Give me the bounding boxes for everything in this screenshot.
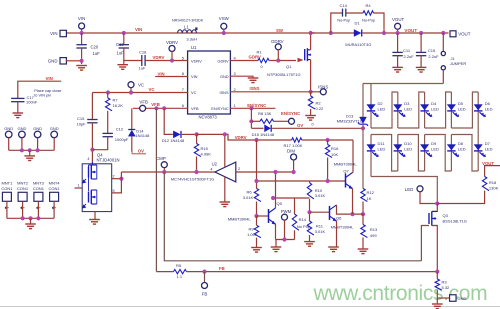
svg-text:D11: D11 <box>378 141 386 146</box>
junction C15b top <box>419 31 423 35</box>
pad GND 1 <box>5 131 12 138</box>
wire GND pads bus <box>9 149 55 151</box>
svg-text:C14: C14 <box>340 3 348 8</box>
wire C17 bottom <box>17 102 19 113</box>
svg-text:D12 1N4148: D12 1N4148 <box>162 138 185 143</box>
svg-text:1uF: 1uF <box>117 51 125 56</box>
wire OV right <box>272 127 363 129</box>
svg-text:R11: R11 <box>316 223 324 228</box>
wire R17 line to Q7 <box>352 140 354 173</box>
wire C20 leads <box>81 33 83 45</box>
ground below C20 <box>76 66 87 71</box>
svg-text:CON1: CON1 <box>17 186 29 191</box>
wire U2 vcc <box>224 134 226 167</box>
svg-text:1N4148: 1N4148 <box>135 133 150 138</box>
wire VDRV jog <box>197 134 292 140</box>
wire R10 bottom <box>309 199 311 221</box>
ground below Q5 rail <box>271 247 282 252</box>
capacitor C14 <box>343 9 346 17</box>
wire gate arrow <box>298 58 304 62</box>
junction VSW <box>222 31 226 35</box>
Q4 internal gate tie <box>89 162 93 191</box>
diode D15 <box>265 125 272 132</box>
svg-text:GDRV: GDRV <box>271 39 284 44</box>
ground below C11 <box>392 67 403 72</box>
svg-text:NTJD4001N: NTJD4001N <box>97 158 120 163</box>
svg-text:R8 13K: R8 13K <box>258 111 272 116</box>
svg-text:VDRV: VDRV <box>166 40 178 45</box>
wire DIM drop <box>293 160 295 172</box>
svg-text:Q7: Q7 <box>343 169 349 174</box>
junction R15 bottom <box>194 170 198 174</box>
LED D11 <box>367 145 379 157</box>
section OV wire <box>251 123 365 137</box>
wire ISNS pin2 <box>230 91 310 93</box>
wire v R6 <box>256 140 258 189</box>
section U1 <box>182 45 237 119</box>
svg-text:ISNS: ISNS <box>250 86 260 91</box>
net flag OV2 bracket <box>132 151 146 154</box>
svg-text:GND: GND <box>4 126 13 131</box>
wire OV left <box>251 127 263 129</box>
inductor L1 <box>178 30 197 33</box>
svg-text:4: 4 <box>87 157 89 161</box>
wire chain seg D9-D8 <box>398 135 425 172</box>
capacitor C20 <box>76 45 86 48</box>
junction DIM <box>292 170 296 174</box>
ground below C19 <box>117 65 128 70</box>
LED D7 <box>474 145 486 157</box>
Q4 fet B arrow <box>83 204 86 208</box>
svg-text:R18: R18 <box>489 180 497 185</box>
section pin3 gnd <box>230 76 258 82</box>
wire VOUT tp drop <box>397 29 399 33</box>
wire GDRV tp drop <box>277 50 279 61</box>
resistor R3 <box>435 279 442 290</box>
svg-text:D8: D8 <box>458 141 464 146</box>
section ISNS <box>230 84 328 126</box>
transistor Q4 box <box>82 164 112 212</box>
wire R14 bottom <box>294 230 296 239</box>
wire C11 bottom <box>397 56 399 67</box>
svg-text:LED: LED <box>378 147 386 152</box>
svg-text:DIM: DIM <box>287 149 295 154</box>
wire Q3 source <box>432 226 438 272</box>
pin mark MNT4 <box>52 207 56 209</box>
wire R7 top lead <box>107 93 109 98</box>
wire chain seg D3-D4 <box>398 92 425 128</box>
ground pin3 <box>248 78 259 83</box>
wire R2 top lead <box>310 92 312 96</box>
terminal VOUT <box>450 31 456 37</box>
testpoint CMP <box>161 162 167 168</box>
svg-text:LED: LED <box>458 107 466 112</box>
terminal MNT2 <box>18 192 27 201</box>
wire GND pad 3 drop <box>37 138 39 151</box>
section VIN flag / C17 <box>11 76 61 117</box>
wire snub right <box>374 13 385 33</box>
svg-text:3.01K: 3.01K <box>315 229 326 234</box>
ground below R2 <box>305 116 316 121</box>
buffer U2 triangle <box>215 162 236 182</box>
wire D7 drop <box>370 135 372 177</box>
wire MNT bus <box>7 217 54 219</box>
section zener column <box>337 84 378 254</box>
svg-text:D6: D6 <box>485 101 491 106</box>
wire Q3 gate <box>421 226 429 261</box>
footer line <box>0 306 500 308</box>
wire pin1 drop <box>250 108 252 128</box>
svg-text:VC: VC <box>191 90 197 95</box>
junction collector rail <box>271 196 275 200</box>
ground below R9 <box>251 248 262 253</box>
junction Q4 gate node <box>90 148 94 152</box>
wire snub mid <box>346 12 363 14</box>
svg-text:VOUT: VOUT <box>392 17 405 22</box>
pin mark MNT2 <box>21 207 25 209</box>
wire D14 top lead <box>131 108 133 129</box>
wire R8 to tp <box>274 120 289 122</box>
svg-text:C11: C11 <box>403 48 411 53</box>
svg-text:3.01K: 3.01K <box>315 193 326 198</box>
junction J1 top <box>441 31 445 35</box>
junction R10 bottom <box>307 210 311 214</box>
wire Q4 pin2 up <box>120 172 122 179</box>
junction R12 bottom <box>361 212 365 216</box>
wire J1 lower <box>442 70 444 84</box>
junction VDRV tp <box>170 58 174 62</box>
LED D3 <box>394 105 406 117</box>
wire Q4 pin5 <box>112 179 122 193</box>
ground below Q4 <box>89 220 100 225</box>
terminal VIN J? <box>60 30 66 36</box>
svg-text:R6: R6 <box>247 189 253 194</box>
svg-text:JUMPER: JUMPER <box>450 61 467 66</box>
junction mnt bus a <box>21 216 25 220</box>
junction D12 vfb <box>162 106 166 110</box>
wire comp main <box>121 171 214 173</box>
wire rail to D1 <box>311 32 354 34</box>
svg-text:OV: OV <box>138 149 144 154</box>
wire rail gnd drop <box>275 240 277 247</box>
diode D14 <box>128 130 135 137</box>
svg-text:LED: LED <box>431 147 439 152</box>
wire VIN tp drop <box>81 29 83 33</box>
wire emitter rail <box>276 239 295 241</box>
transistor Q7 <box>346 173 353 189</box>
wire chain seg D8-D7 <box>371 135 398 172</box>
Q4 internal drain ties <box>96 165 98 204</box>
junction R16 top <box>326 138 330 142</box>
wire C19 bottom lead <box>123 48 125 61</box>
section VDRV line <box>235 135 353 172</box>
svg-text:D9: D9 <box>431 141 437 146</box>
svg-text:GND: GND <box>48 59 58 64</box>
wire C19 gnd stem <box>123 61 125 65</box>
wire VDRV tp drop <box>171 51 173 60</box>
svg-text:CON1: CON1 <box>1 186 13 191</box>
section L1 VSW <box>172 16 230 42</box>
svg-text:1.00K: 1.00K <box>247 232 258 237</box>
wire ISNS tp lead <box>311 91 321 93</box>
junction R6 top <box>254 138 258 142</box>
wire chain seg D11-D10 <box>451 135 478 172</box>
svg-text:GND: GND <box>220 74 229 79</box>
wire R12 bottom <box>362 202 364 215</box>
LED D9 <box>420 145 432 157</box>
pad GND 4 <box>51 131 58 138</box>
section GND pads <box>4 126 59 161</box>
svg-text:VIN: VIN <box>191 74 198 79</box>
testpoint GDRV <box>275 44 281 50</box>
wire VIN flag to C17 <box>18 81 61 98</box>
svg-text:D4: D4 <box>431 101 437 106</box>
transistor Q4 fet B <box>89 190 97 204</box>
junction gnd bus a <box>20 148 24 152</box>
junction FB right <box>435 270 439 274</box>
svg-text:LED: LED <box>404 147 412 152</box>
section U2 buffer <box>121 132 240 206</box>
wire pin1 <box>230 107 275 109</box>
junction rail pwm <box>282 237 286 241</box>
svg-text:4: 4 <box>210 167 212 171</box>
svg-text:OV: OV <box>297 123 303 128</box>
testpoint PWM <box>282 214 288 220</box>
svg-text:CON1: CON1 <box>33 186 45 191</box>
wire VIN rail <box>67 32 316 34</box>
testpoint VDRV <box>169 46 175 52</box>
svg-text:VSW: VSW <box>219 16 230 21</box>
svg-text:C20: C20 <box>91 45 99 50</box>
svg-text:R7: R7 <box>113 98 119 103</box>
svg-text:3.3uH: 3.3uH <box>186 37 197 42</box>
svg-text:2: 2 <box>113 175 115 179</box>
svg-text:1uF: 1uF <box>93 51 101 56</box>
wire to GND terminal <box>437 297 449 299</box>
junction ensync top <box>249 106 253 110</box>
ground below MNT <box>25 224 36 229</box>
svg-text:GND: GND <box>50 126 59 131</box>
terminal MNT3 <box>34 192 43 201</box>
wire chain seg D2-D3 <box>371 92 398 128</box>
junction Q5 collector <box>273 170 277 174</box>
svg-text:VDRV: VDRV <box>153 55 165 60</box>
svg-text:D1: D1 <box>355 21 361 26</box>
junction ensync <box>249 119 253 123</box>
svg-text:PWM: PWM <box>281 209 292 214</box>
wire Q5 emitter <box>275 224 277 240</box>
section top-left input <box>48 16 315 70</box>
section compensation <box>77 90 354 163</box>
wire chain seg D5-D6 <box>451 92 478 128</box>
wire Q4 pin2 <box>112 178 122 180</box>
svg-text:U2: U2 <box>212 162 218 167</box>
wire Q5 base <box>257 215 269 217</box>
ground below R11 <box>304 242 315 247</box>
svg-text:2.2uF: 2.2uF <box>428 54 439 59</box>
wire Q6 collector <box>337 205 364 214</box>
testpoint VOUT <box>395 23 401 29</box>
capacitor C12 <box>103 133 113 136</box>
resistor R14 <box>292 214 299 230</box>
transistor Q5 <box>269 208 276 224</box>
wire R9 top <box>256 216 258 225</box>
svg-text:16.2K: 16.2K <box>113 103 124 108</box>
svg-text:MNT4: MNT4 <box>49 181 61 186</box>
svg-text:D15 1N4148: D15 1N4148 <box>252 132 275 137</box>
wire R13b top <box>362 214 364 224</box>
svg-text:C12: C12 <box>116 127 124 132</box>
wire D1 to VOUT <box>362 32 448 34</box>
wire C15b bottom <box>420 56 422 67</box>
wire zener bottom <box>362 125 364 189</box>
section transistor cluster <box>228 140 363 252</box>
svg-text:No-Pop: No-Pop <box>362 19 375 23</box>
terminal GND J? <box>60 58 66 64</box>
svg-text:LED: LED <box>404 107 412 112</box>
wire PWM drop <box>284 220 286 240</box>
pad GND 2 <box>19 131 26 138</box>
wire MNT2 drop <box>22 201 24 218</box>
svg-text:R14: R14 <box>299 217 307 222</box>
wire D6 drop to D7 <box>477 92 479 171</box>
testpoint ISNS <box>320 89 326 95</box>
LED D6 <box>474 105 486 117</box>
svg-text:VOUT: VOUT <box>458 32 471 37</box>
wire FB tp drop <box>204 272 206 283</box>
svg-text:MURA110T3G: MURA110T3G <box>345 42 371 47</box>
wire Q7 emitter <box>352 189 354 215</box>
junction R16 bottom <box>326 179 330 183</box>
wire D4 drop <box>424 92 426 128</box>
svg-text:4.99K: 4.99K <box>201 151 212 156</box>
capacitor C17 <box>11 98 24 101</box>
svg-text:Q5: Q5 <box>277 201 283 206</box>
junction mnt bus b <box>36 216 40 220</box>
svg-text:C18: C18 <box>139 50 147 55</box>
resistor R11 <box>307 221 314 235</box>
junction mnt stem <box>28 216 32 220</box>
svg-text:Q1: Q1 <box>286 64 292 69</box>
svg-text:C15: C15 <box>77 116 85 121</box>
svg-text:Q3: Q3 <box>443 213 449 218</box>
svg-text:EN/SYNC: EN/SYNC <box>281 111 300 116</box>
wire R6 to Q5 base <box>256 202 258 217</box>
wire GND pad 1 drop <box>8 138 10 151</box>
svg-text:1000pF: 1000pF <box>115 137 129 142</box>
wire D9 drop <box>424 135 426 172</box>
svg-text:D7: D7 <box>485 141 491 146</box>
ground below C15b <box>416 67 427 72</box>
transistor Q3 <box>429 212 437 226</box>
ground below R3 <box>432 304 443 309</box>
junction gnd bus b <box>36 148 40 152</box>
svg-text:SW: SW <box>276 28 284 33</box>
svg-text:GDRV: GDRV <box>217 58 229 63</box>
junction CMP <box>162 170 166 174</box>
wire VFB pin6 <box>133 107 188 109</box>
section GDRV Q1 <box>230 31 312 92</box>
wire chain seg D10-D9 <box>425 135 452 172</box>
testpoint VIN <box>79 23 85 29</box>
wire J1 upper <box>442 33 444 51</box>
svg-text:L1: L1 <box>184 25 189 30</box>
svg-text:VIN: VIN <box>46 76 53 81</box>
wire R15 top lead <box>196 134 198 143</box>
junction FB tp <box>202 270 206 274</box>
capacitor C15 2.2uF <box>416 52 426 55</box>
junction gnd bus mid <box>28 148 32 152</box>
transistor Q1 <box>305 48 311 61</box>
wire R2 bottom <box>310 109 312 115</box>
svg-text:R5: R5 <box>176 263 182 268</box>
wire D12 to R15 node <box>182 133 197 135</box>
wire MNT3 drop <box>37 201 39 218</box>
wire VC pin7 <box>92 92 187 94</box>
wire R15 bottom lead <box>196 157 198 173</box>
wire R16 bottom <box>327 158 329 182</box>
svg-text:D2: D2 <box>378 101 384 106</box>
pin mark MNT3 <box>36 207 40 209</box>
section mounting holes <box>1 181 60 229</box>
svg-text:C19: C19 <box>116 42 124 47</box>
svg-text:Q6: Q6 <box>336 216 342 221</box>
wire R13b bottom <box>362 238 364 249</box>
wire VOUT edge <box>485 166 500 177</box>
wire C20 bottom <box>81 48 83 64</box>
wire string exit rail <box>371 177 437 204</box>
svg-text:U1: U1 <box>191 45 197 50</box>
svg-text:130K: 130K <box>489 186 499 191</box>
junction Q5 base <box>254 214 258 218</box>
IC U1 box <box>188 51 231 114</box>
svg-text:R13: R13 <box>370 227 378 232</box>
wire Q4 pin1 stub <box>75 187 83 189</box>
capacitor C11 <box>392 52 402 55</box>
wire D8 drop <box>397 135 399 172</box>
svg-text:2: 2 <box>238 167 240 171</box>
svg-text:R9: R9 <box>249 227 255 232</box>
wire VDRV to pin5 <box>145 60 188 62</box>
svg-text:FB: FB <box>202 292 208 297</box>
zener D13 <box>358 117 368 126</box>
wire D12 anode lead <box>164 108 173 134</box>
svg-text:5.32: 5.32 <box>442 285 451 290</box>
wire GND pad 4 drop <box>53 138 55 151</box>
LED D8 <box>447 145 459 157</box>
resistor R17 <box>292 138 302 142</box>
svg-text:0.22: 0.22 <box>316 106 325 111</box>
svg-text:5: 5 <box>113 189 115 193</box>
wire led top rail <box>363 83 443 85</box>
svg-text:R3: R3 <box>442 280 448 285</box>
wire R3 bottom <box>436 290 438 304</box>
svg-text:NCV8873: NCV8873 <box>199 115 218 120</box>
section VFB pin6 <box>133 100 188 112</box>
ground below pads <box>24 156 35 161</box>
svg-text:3.01K: 3.01K <box>243 195 254 200</box>
wire snub left <box>331 13 343 33</box>
wire R18 bottom <box>437 191 484 204</box>
section J1 <box>441 31 466 84</box>
wire VDRV left of C18 <box>124 60 142 62</box>
wire C11 lead <box>397 33 399 52</box>
wire line B <box>257 180 346 182</box>
svg-text:2.2uF: 2.2uF <box>404 54 415 59</box>
svg-text:VC: VC <box>138 83 144 88</box>
section EN/SYNC <box>230 103 300 129</box>
transistor Q6 <box>330 205 337 221</box>
